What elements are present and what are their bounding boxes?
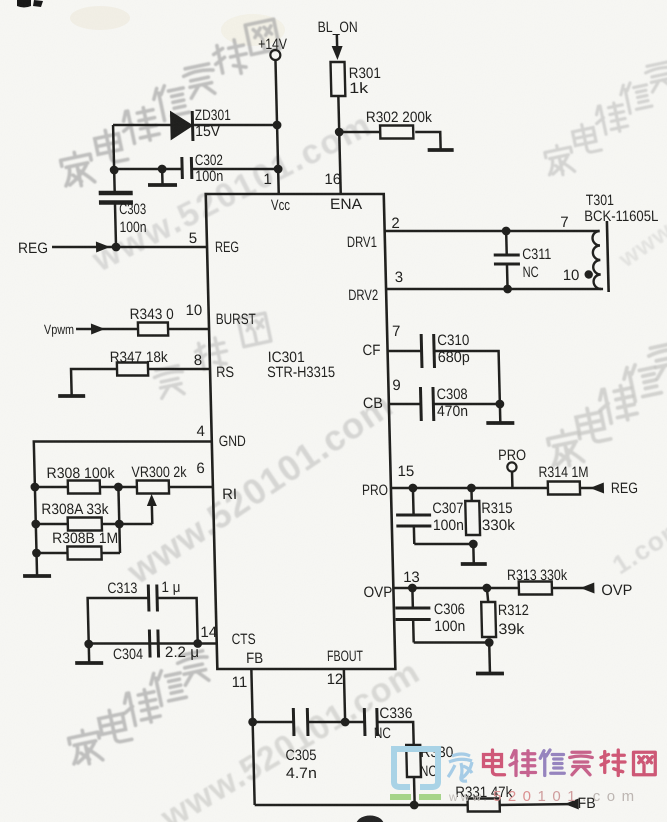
resistor R302 body bbox=[380, 126, 413, 139]
wire left rail to R308B bbox=[37, 552, 68, 555]
logo red character 1 bbox=[484, 750, 505, 775]
wire ZD301 cathode to +14V rail bbox=[194, 124, 277, 127]
resistor R330 body bbox=[406, 745, 421, 777]
wire C307 top stub bbox=[412, 488, 415, 515]
node junction dot R308A row bbox=[31, 520, 40, 529]
node junction dot C306 top bbox=[408, 584, 417, 593]
watermark CJK top-left bbox=[60, 149, 96, 188]
scan smudge top-middle bbox=[221, 14, 285, 46]
capacitor C313 plates bbox=[147, 585, 151, 612]
node junction dot C305 left bbox=[248, 718, 257, 727]
logo red character 6 bbox=[634, 752, 656, 775]
node junction dot pin14 bbox=[193, 639, 202, 648]
wire R315 top stub bbox=[470, 488, 473, 501]
wire C311 top stub bbox=[505, 231, 508, 255]
resistor R315 body bbox=[465, 501, 480, 535]
capacitor C308 plates bbox=[419, 387, 423, 421]
capacitor C336 plates bbox=[363, 708, 367, 736]
node junction dot left of C302 bbox=[110, 166, 119, 175]
wire R308 to VR300 bbox=[100, 486, 137, 489]
resistor R312 body bbox=[481, 602, 496, 637]
wire C313 right loop bbox=[157, 598, 198, 643]
resistor R347 body bbox=[117, 363, 148, 376]
wire OVP row bbox=[393, 587, 519, 590]
wire R301 to ENA pin16 bbox=[338, 96, 340, 194]
node +14V terminal circle bbox=[270, 50, 280, 60]
node junction dot R308 row bbox=[30, 483, 39, 492]
node junction dot DRV1/C311 bbox=[502, 227, 511, 236]
node junction dot R315 bottom bbox=[469, 540, 478, 549]
resistor R331 body bbox=[468, 799, 500, 812]
wire bottom rail bbox=[255, 804, 468, 807]
transformer T301 phase dot bbox=[584, 270, 593, 278]
node junction dot ZD301/+14V bbox=[273, 121, 282, 130]
logo book icon blue right side bbox=[420, 749, 438, 787]
wire R308B to link bbox=[102, 552, 121, 555]
wire C307 bottom stub bbox=[413, 526, 416, 544]
wire PRO row bbox=[391, 487, 548, 490]
arrow REG pointing right bbox=[96, 242, 110, 253]
arrow Vpwm pointing right bbox=[91, 324, 105, 335]
node junction dot C307 top bbox=[408, 484, 417, 493]
node junction dot REG/C303 bbox=[112, 243, 121, 252]
logo red character 5 bbox=[601, 750, 625, 776]
capacitor C310 plates bbox=[420, 334, 424, 368]
scan smudge top-left bbox=[70, 6, 130, 30]
wire C306 bottom stub bbox=[412, 620, 415, 643]
node junction dot R312 top bbox=[482, 584, 491, 593]
wire R312 top stub bbox=[487, 588, 488, 602]
resistor R313 body bbox=[519, 582, 552, 595]
node junction dot C304 left bbox=[84, 640, 93, 649]
capacitor C303 plates bbox=[99, 191, 133, 195]
capacitor C302 plates bbox=[180, 157, 184, 179]
wire ground corner to R347 bbox=[71, 369, 117, 382]
watermark CJK top-right bbox=[544, 143, 576, 178]
resistor R301 body bbox=[331, 62, 346, 96]
resistor R343 body bbox=[138, 323, 168, 336]
svg-text:www.: www. bbox=[448, 790, 490, 804]
wire C336 to R330 bbox=[377, 722, 414, 745]
arrow BL_ON pointing down bbox=[332, 46, 343, 60]
wire CF to C310 bbox=[388, 350, 422, 353]
wire ZD301 anode side horizontal bbox=[113, 124, 171, 127]
wire DRV2 to transformer bbox=[386, 288, 603, 291]
logo green underline right bbox=[419, 794, 441, 800]
logo red character 2 bbox=[510, 751, 536, 776]
capacitor C306 plates bbox=[395, 607, 430, 610]
node junction dot R308/R308A link bbox=[114, 483, 123, 492]
ground of C313/C304 bbox=[88, 645, 91, 663]
wire VR300 to RI pin6 bbox=[169, 486, 213, 489]
op-amp IC301 STR-H3315 body outline bbox=[206, 194, 396, 669]
resistor R308B body bbox=[67, 547, 101, 560]
wire C306-R312 bottom link bbox=[414, 641, 490, 644]
node junction dot R315 top bbox=[467, 484, 476, 493]
torn page-number mark top-left corner bbox=[17, 0, 43, 8]
wire C304 row bbox=[89, 642, 217, 645]
wire left rail to R308A bbox=[36, 523, 68, 526]
wire pin12 vertical bbox=[344, 669, 345, 722]
node junction dot CF/CB vertical bbox=[495, 400, 504, 409]
capacitor C305 plates bbox=[292, 708, 296, 736]
logo red character 4 bbox=[570, 752, 593, 775]
node junction dot R312 bottom bbox=[485, 638, 494, 647]
node junction dot R308B row bbox=[32, 549, 41, 558]
wire R313 to OVP arrow bbox=[552, 587, 594, 590]
logo book icon blue top bar bbox=[391, 746, 441, 752]
capacitor C311 plates bbox=[494, 254, 520, 257]
wire C302 row left segment bbox=[114, 168, 182, 171]
wire C307-R315 bottom link bbox=[414, 543, 473, 546]
wire R301 junction to R302 bbox=[339, 131, 380, 134]
wire R302 to ground corner bbox=[415, 132, 440, 137]
wire C302 to +14V rail bbox=[192, 168, 279, 171]
node junction dot C305/C336 bbox=[341, 718, 350, 727]
wire left drop from ZD301 line bbox=[113, 125, 114, 170]
node junction dot DRV2/C311 bbox=[503, 285, 512, 294]
wire link R308-R308B vertical bbox=[118, 487, 120, 553]
wire C313 left loop bbox=[88, 598, 150, 643]
node junction dot C302 ground stub bbox=[158, 165, 167, 174]
page-number ellipse bottom cut bbox=[356, 816, 384, 822]
wire R347 to RS pin8 bbox=[148, 368, 210, 371]
potentiometer VR300 body bbox=[137, 481, 169, 494]
capacitor C304 plates bbox=[148, 630, 152, 658]
diode ZD301 cathode bar bbox=[191, 111, 195, 141]
wire GND pin to left rail bbox=[34, 442, 215, 563]
resistor R314 body bbox=[548, 482, 580, 495]
watermark CJK mid-left partial bbox=[153, 365, 187, 399]
wire R308A to wiper bbox=[102, 523, 153, 526]
wire C303 top stub bbox=[113, 170, 116, 193]
wire R343 to BURST pin10 bbox=[168, 328, 209, 331]
wire REG input line bbox=[52, 246, 207, 249]
ground stub of C302 row bbox=[161, 169, 164, 185]
wire +14V vertical to Vcc pin1 bbox=[275, 60, 278, 194]
wire R330 to bottom rail bbox=[413, 777, 416, 805]
logo blue cursive jia character bbox=[448, 754, 472, 781]
logo red character 3 bbox=[540, 750, 564, 776]
wire C310 to right vertical bbox=[434, 351, 500, 404]
svg-text:520101.com: 520101.com bbox=[493, 788, 641, 805]
wire DRV1 to transformer bbox=[385, 230, 600, 233]
wire C303 bottom stub to REG line bbox=[115, 203, 116, 247]
wire FB pin11 vertical bbox=[251, 669, 254, 805]
node PRO open circle bbox=[507, 462, 516, 471]
ground of GND rail bbox=[35, 562, 38, 576]
wire C311 bottom stub bbox=[506, 264, 509, 289]
wire CB to C308 bbox=[389, 403, 421, 406]
wire Vpwm to R343 bbox=[76, 328, 138, 331]
watermark CJK right-middle bbox=[547, 427, 585, 468]
arrow FB pointing left bbox=[565, 799, 579, 810]
wire C308 to right vertical bbox=[433, 403, 500, 406]
wire left rail to R308 bbox=[35, 486, 68, 489]
watermark CJK bottom-left bbox=[68, 727, 104, 766]
node junction dot C302/+14V bbox=[274, 165, 283, 174]
wire R314 to REG arrow bbox=[580, 487, 603, 490]
wire PRO node stem bbox=[511, 472, 514, 488]
ground of R302 bbox=[439, 137, 442, 150]
diode ZD301 triangle bbox=[171, 112, 193, 139]
ground of PRO filter bbox=[472, 544, 475, 564]
resistor R308 body bbox=[68, 481, 100, 494]
wire BL_ON stub bbox=[336, 35, 339, 50]
wire C306 top stub bbox=[411, 588, 414, 608]
inductor T301 winding bbox=[592, 231, 601, 289]
arrow REG pointing left at R314 bbox=[590, 483, 604, 494]
node junction dot R308A/link bbox=[115, 520, 124, 529]
node junction dot R301/R302 bbox=[335, 128, 344, 137]
ground of OVP filter bbox=[488, 643, 491, 674]
resistor R308A body bbox=[68, 518, 102, 531]
wire C305 to C336 node bbox=[308, 721, 365, 724]
arrow VR300 wiper pointing up bbox=[147, 494, 157, 506]
transformer T301 core line bbox=[607, 221, 609, 292]
wire VR300 wiper bbox=[150, 498, 153, 524]
logo book icon blue left side bbox=[394, 749, 410, 787]
wire R331 to FB arrow bbox=[500, 804, 578, 805]
wire C305 left stub bbox=[253, 721, 294, 724]
ground of CF/CB filter bbox=[499, 404, 502, 423]
arrow OVP pointing left bbox=[580, 583, 594, 594]
capacitor C307 plates bbox=[396, 514, 431, 517]
ground of R347 bbox=[70, 382, 73, 396]
logo green underline left bbox=[390, 794, 411, 800]
node junction dot bottom rail bbox=[410, 801, 419, 810]
